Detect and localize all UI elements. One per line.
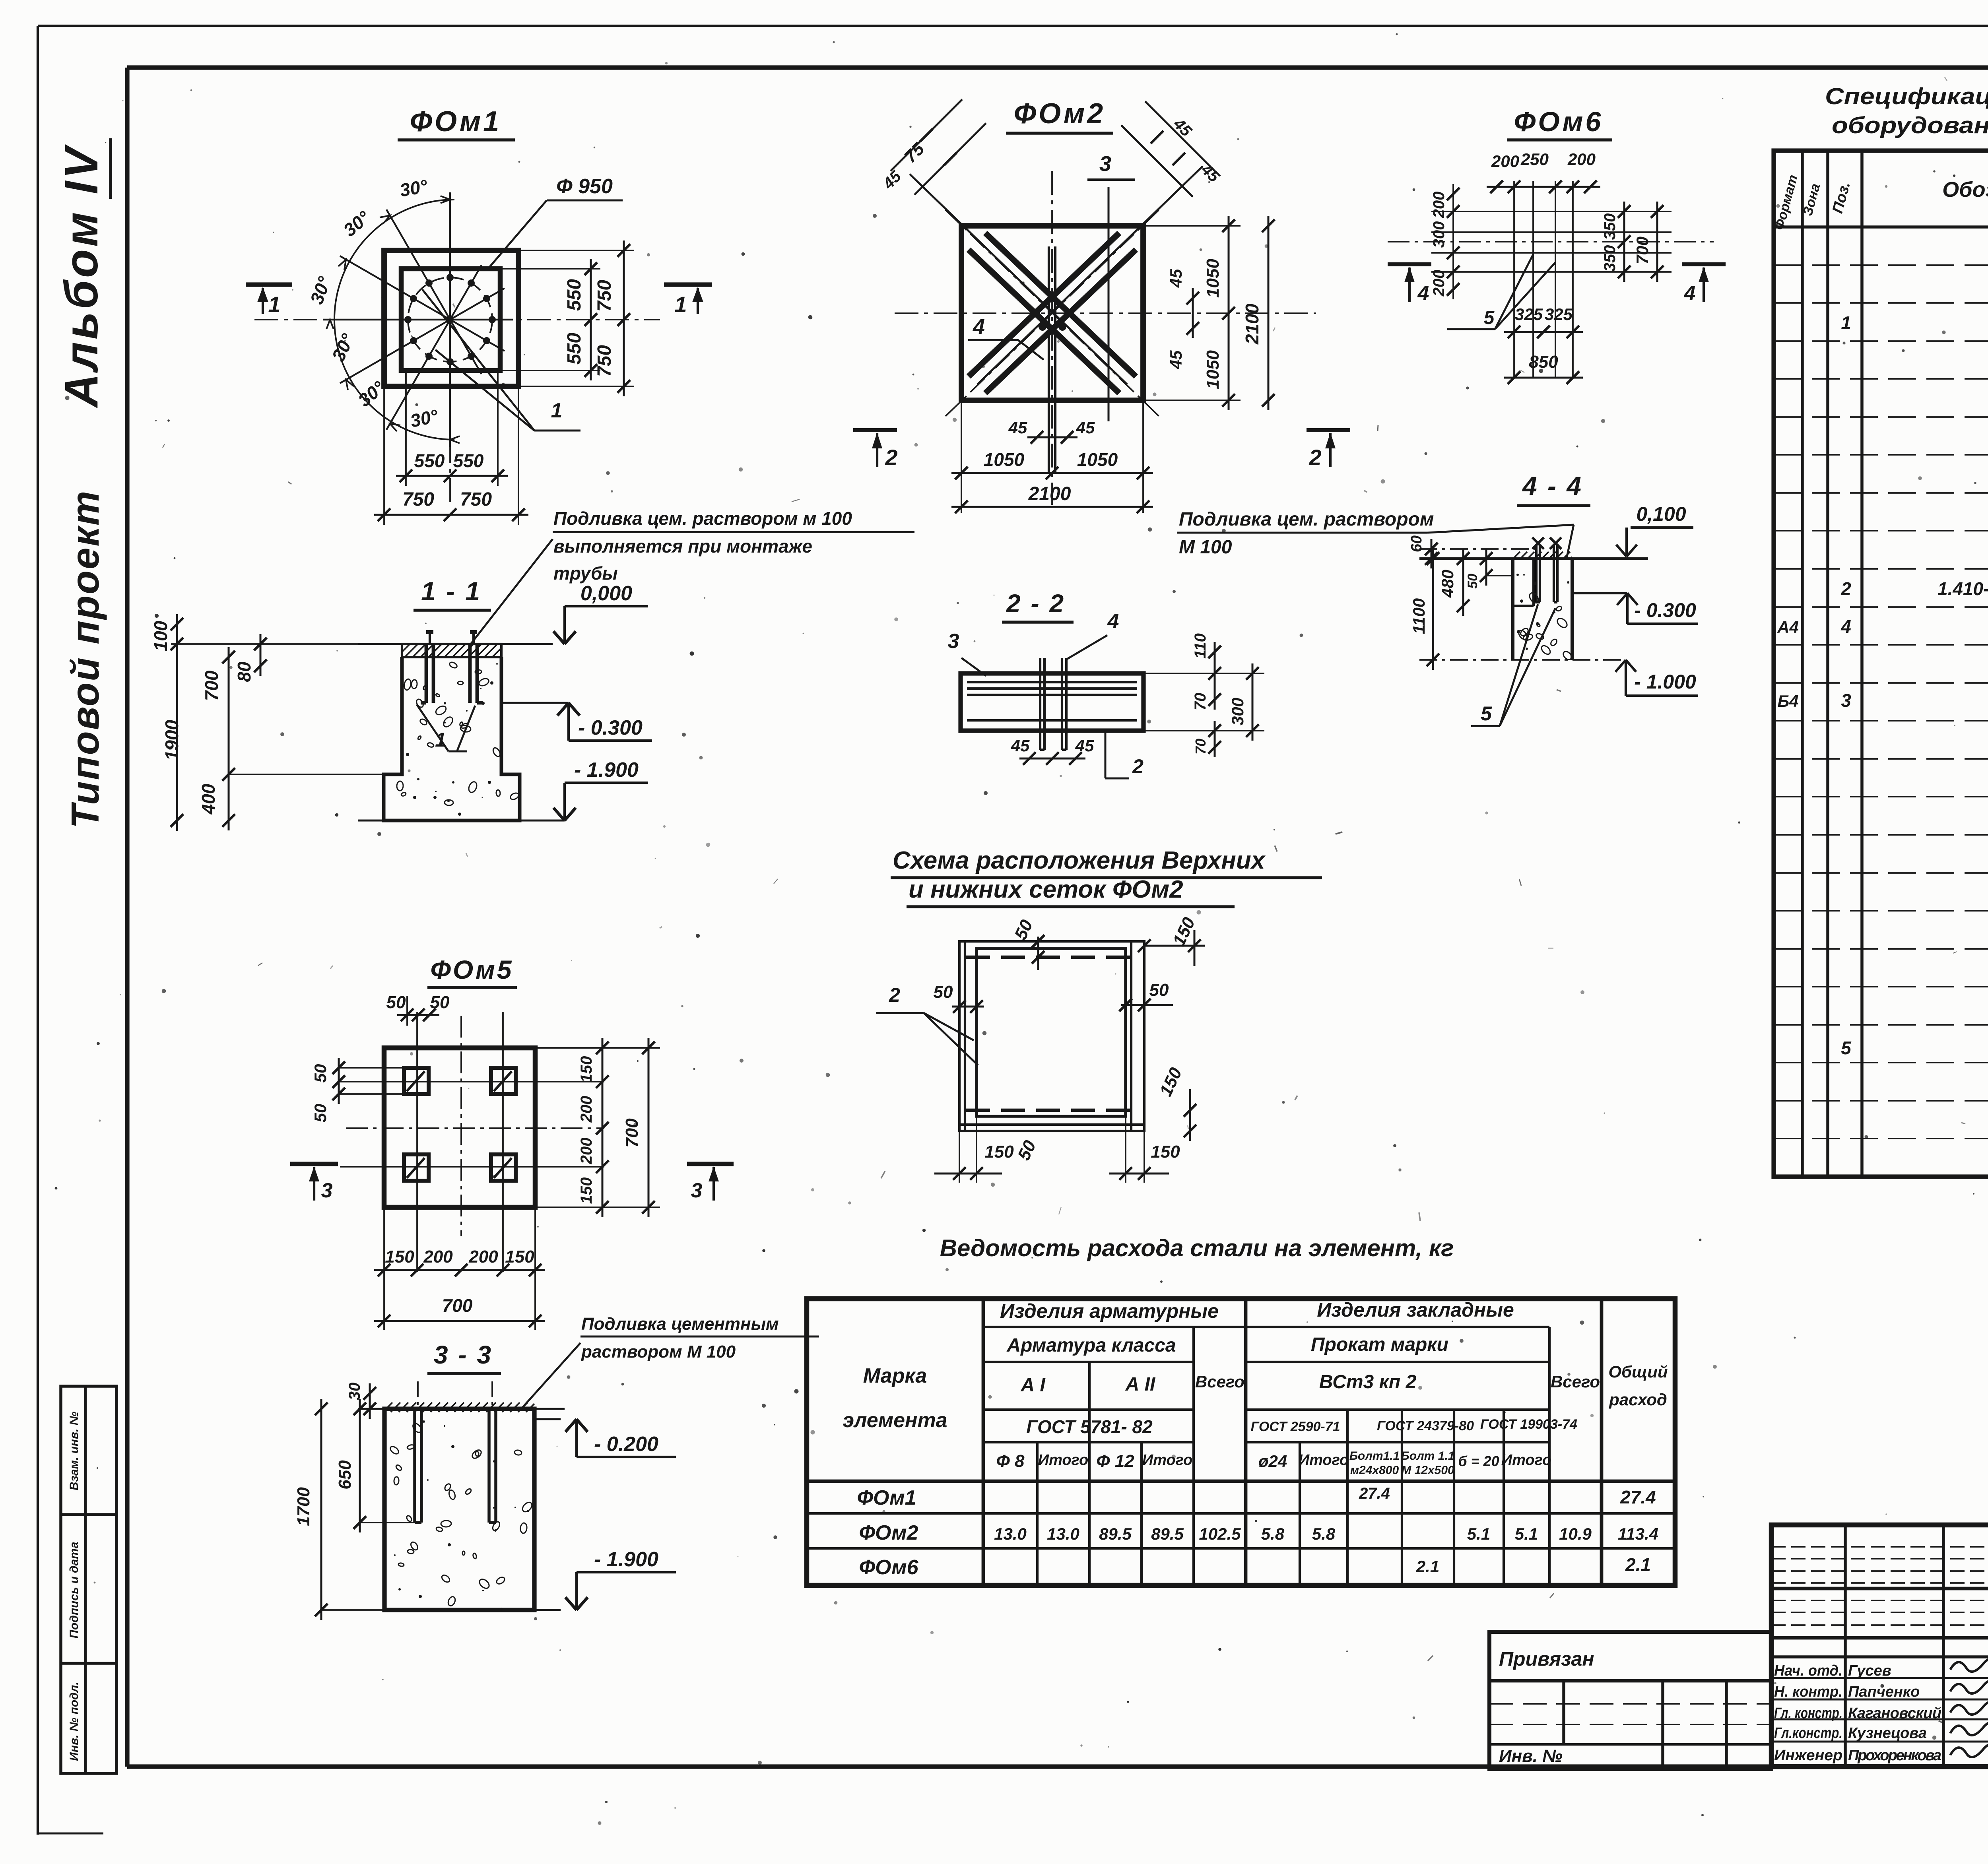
svg-text:50: 50: [386, 993, 406, 1012]
svg-text:5.8: 5.8: [1312, 1525, 1336, 1543]
ФОм1 right dim chain 550/550: [500, 259, 600, 380]
ФОм1 protractor arc: [334, 200, 454, 440]
svg-text:2: 2: [1840, 578, 1851, 599]
svg-text:Инженер: Инженер: [1774, 1747, 1842, 1764]
svg-text:ГОСТ 24379-80: ГОСТ 24379-80: [1377, 1418, 1474, 1433]
svg-text:и нижних сеток ФОм2: и нижних сеток ФОм2: [909, 876, 1183, 903]
svg-text:700: 700: [201, 670, 222, 701]
section 3-3 left dims 650/1700/30: [294, 1383, 415, 1620]
svg-text:0,000: 0,000: [580, 582, 632, 605]
ФОм2 bottom dims 45/45 1050/1050 2100: [951, 400, 1153, 513]
svg-text:650: 650: [335, 1460, 355, 1490]
svg-text:3: 3: [1841, 690, 1851, 711]
section 1-1 elevations: [501, 582, 652, 820]
svg-text:А4: А4: [1777, 618, 1799, 636]
svg-text:4: 4: [1417, 282, 1429, 305]
ФОм1 radial rays 30 deg: [323, 192, 513, 447]
svg-text:Взам. инв. №: Взам. инв. №: [68, 1412, 81, 1490]
svg-text:550: 550: [414, 450, 445, 471]
ведомость table grid: [807, 1299, 1675, 1585]
ведомость header texts: [843, 1299, 1668, 1477]
svg-text:ФОм1: ФОм1: [410, 106, 501, 138]
привязан box: [1489, 1632, 1771, 1769]
stamp signature rows: [1771, 1662, 1988, 1764]
svg-text:89.5: 89.5: [1151, 1525, 1184, 1543]
svg-text:1050: 1050: [1203, 350, 1223, 389]
svg-text:0,100: 0,100: [1636, 503, 1686, 525]
svg-text:200: 200: [423, 1247, 453, 1267]
section 3-3 body: [358, 1402, 565, 1610]
svg-text:5: 5: [1484, 307, 1495, 328]
svg-text:Нач. отд.: Нач. отд.: [1774, 1662, 1842, 1679]
svg-text:Н. контр.: Н. контр.: [1774, 1684, 1842, 1700]
svg-text:- 0.300: - 0.300: [578, 716, 643, 739]
svg-text:М 12х500: М 12х500: [1401, 1464, 1454, 1477]
section 3-3 anchor bolts: [415, 1381, 496, 1523]
svg-text:Общий: Общий: [1608, 1362, 1668, 1381]
svg-text:1050: 1050: [1077, 449, 1118, 470]
svg-text:1: 1: [674, 292, 687, 317]
ФОм2 outer square: [961, 226, 1143, 400]
section 4-4 elevation -1.000: [1615, 660, 1698, 696]
svg-text:100: 100: [150, 621, 171, 651]
section 2-2 slab: [961, 673, 1143, 731]
svg-text:ФОм2: ФОм2: [1014, 98, 1105, 130]
svg-text:б = 20: б = 20: [1458, 1453, 1499, 1469]
svg-text:4: 4: [1107, 610, 1119, 633]
foundation plan ФОм2 title: [1006, 98, 1113, 133]
ФОм5 anchor plates: [404, 1068, 516, 1181]
svg-text:300: 300: [1430, 221, 1448, 248]
ФОм2 diagonal bracing bars: [910, 166, 1203, 416]
svg-text:М 100: М 100: [1179, 537, 1232, 558]
section 2-2 title: [1002, 589, 1074, 622]
ФОм6 section marks 4: [1388, 264, 1726, 305]
section 4-4 column body: [1513, 552, 1573, 661]
svg-text:110: 110: [1192, 633, 1209, 659]
svg-text:- 1.900: - 1.900: [574, 758, 639, 782]
stamp signatures squiggles: [1950, 1658, 1988, 1757]
section 4-4 ground and bottom lines: [1419, 549, 1648, 660]
section 2-2 bottom dims 45/45: [1011, 731, 1143, 778]
svg-text:1: 1: [551, 399, 563, 422]
svg-text:2: 2: [1132, 755, 1143, 778]
ФОм2 top-right diagonal dims 45/45: [1121, 101, 1223, 197]
схема title 2 lines: [891, 847, 1322, 907]
ФОм1 bolt circle Ф950 dashed: [408, 277, 492, 362]
svg-text:200: 200: [1430, 192, 1448, 219]
svg-text:Ф 12: Ф 12: [1096, 1451, 1134, 1471]
ФОм6 top dim chain 200/250/200: [1487, 150, 1600, 193]
ФОм1 inner square (pedestal): [401, 269, 500, 370]
ФОм1 bottom dim chain 550/550: [396, 370, 508, 486]
svg-text:1050: 1050: [1203, 259, 1223, 298]
svg-text:3: 3: [321, 1179, 333, 1202]
svg-text:200: 200: [1567, 150, 1596, 169]
svg-text:5.1: 5.1: [1467, 1525, 1490, 1543]
svg-text:Прохоренкова: Прохоренкова: [1848, 1747, 1941, 1764]
схема mesh 2 dashed + side lines: [959, 941, 1144, 1131]
svg-text:13.0: 13.0: [1047, 1525, 1079, 1543]
svg-text:700: 700: [1633, 237, 1652, 264]
svg-text:ВСт3 кп 2: ВСт3 кп 2: [1319, 1371, 1417, 1393]
svg-text:элемента: элемента: [843, 1409, 947, 1432]
svg-text:150: 150: [385, 1247, 414, 1267]
svg-text:750: 750: [594, 280, 615, 312]
ФОм1 bolt leader label 1: [422, 289, 580, 431]
svg-text:Схема расположения Верхних: Схема расположения Верхних: [893, 847, 1266, 874]
svg-text:раствором М 100: раствором М 100: [581, 1342, 736, 1362]
svg-text:ГОСТ 2590-71: ГОСТ 2590-71: [1250, 1419, 1340, 1434]
схема dim right 150: [1156, 1065, 1196, 1141]
svg-text:1900: 1900: [161, 720, 182, 760]
ФОм6 vertical axis lines: [1514, 181, 1573, 378]
svg-text:50: 50: [430, 993, 450, 1012]
svg-text:2: 2: [885, 445, 897, 470]
svg-text:Ведомость расхода стали на эле: Ведомость расхода стали на элемент, кг: [940, 1235, 1454, 1261]
ФОм1 section mark 1 right: [664, 285, 712, 317]
svg-text:4 - 4: 4 - 4: [1522, 471, 1583, 500]
svg-text:Болт 1.1: Болт 1.1: [1401, 1449, 1455, 1463]
svg-text:750: 750: [460, 489, 492, 510]
svg-text:Подливка цем. раствором: Подливка цем. раствором: [1179, 509, 1434, 530]
svg-text:400: 400: [198, 784, 219, 815]
ФОм6 leader 5: [1447, 254, 1555, 329]
svg-text:200: 200: [468, 1247, 498, 1267]
svg-text:45: 45: [1167, 269, 1185, 288]
спецификация header texts: [1772, 168, 1988, 232]
section 1-1 left dims: [150, 614, 402, 831]
ФОм1 section mark 1 left: [246, 285, 292, 317]
svg-text:ФОм6: ФОм6: [1514, 106, 1604, 137]
section 2-2 bolts: [1040, 658, 1066, 750]
svg-text:Гл.констр.: Гл.констр.: [1774, 1725, 1842, 1742]
svg-text:300: 300: [1228, 698, 1247, 725]
svg-text:2.1: 2.1: [1416, 1557, 1439, 1576]
svg-text:150: 150: [984, 1142, 1014, 1162]
svg-text:150: 150: [578, 1056, 595, 1083]
svg-text:Инв. №: Инв. №: [1499, 1746, 1563, 1766]
ФОм2 section line 3 vertical: [1087, 152, 1135, 421]
svg-text:Подпись и дата: Подпись и дата: [68, 1542, 81, 1638]
section 4-4 title: [1517, 471, 1590, 506]
svg-text:250: 250: [1520, 150, 1549, 169]
svg-text:ФОм6: ФОм6: [859, 1556, 918, 1579]
svg-text:750: 750: [594, 345, 615, 377]
ФОм1 30deg labels: [306, 175, 440, 431]
svg-text:м24х800: м24х800: [1350, 1464, 1399, 1477]
svg-text:27.4: 27.4: [1620, 1487, 1656, 1507]
ФОм1 right dim chain 750/750: [518, 241, 634, 396]
section 4-4 bolts: [1532, 537, 1561, 602]
svg-text:Арматура класса: Арматура класса: [1006, 1335, 1176, 1356]
svg-text:60: 60: [1408, 535, 1425, 552]
stamp revision rows top-left: [1771, 1547, 1988, 1657]
ФОм1 centerlines: [254, 244, 660, 507]
ФОм6 bottom dims 325/325 850: [1504, 305, 1583, 384]
svg-text:89.5: 89.5: [1099, 1525, 1132, 1543]
схема outer square: [959, 941, 1144, 1131]
svg-text:480: 480: [1438, 570, 1457, 598]
svg-text:1 - 1: 1 - 1: [421, 576, 481, 606]
section 4-4 note Подливка цем раствором М100: [1177, 509, 1574, 559]
ФОм5 bottom dim chain 150/200/200/150 + 700: [374, 1207, 545, 1330]
ФОм2 section marks 2: [853, 430, 1350, 470]
схема bottom dims 150/50/150: [934, 1116, 1180, 1183]
svg-text:Всего: Всего: [1551, 1372, 1600, 1391]
svg-text:325: 325: [1545, 305, 1573, 324]
svg-text:27.4: 27.4: [1359, 1485, 1390, 1502]
svg-text:200: 200: [1491, 152, 1519, 171]
section 2-2 right dims 110/70/300/70: [1143, 633, 1264, 757]
svg-text:1100: 1100: [1409, 598, 1428, 634]
svg-text:4: 4: [1840, 616, 1851, 637]
section 2-2 labels 3 and 4: [948, 610, 1119, 676]
section 4-4 elevation -0.300: [1572, 593, 1698, 624]
svg-text:350: 350: [1601, 213, 1619, 240]
svg-text:Инв. № подл.: Инв. № подл.: [68, 1682, 81, 1761]
svg-text:45: 45: [1076, 418, 1095, 437]
svg-text:5: 5: [1481, 702, 1492, 725]
section 3-3 title: [427, 1340, 501, 1373]
svg-text:700: 700: [622, 1118, 642, 1148]
схема leader 2: [876, 984, 978, 1065]
margin stamp boxes (Инв № подл / Подпись и дата / Взам инв №): [61, 1386, 116, 1773]
ФОм2 centerlines: [895, 171, 1316, 505]
svg-text:150: 150: [505, 1247, 534, 1267]
svg-text:1: 1: [1841, 312, 1851, 333]
svg-text:- 0.200: - 0.200: [594, 1433, 658, 1456]
svg-text:150: 150: [578, 1177, 595, 1204]
svg-text:200: 200: [578, 1096, 595, 1123]
svg-text:Типовой проект: Типовой проект: [63, 490, 107, 828]
svg-text:850: 850: [1529, 352, 1558, 372]
svg-text:ФОм2: ФОм2: [859, 1521, 918, 1544]
svg-text:5: 5: [1841, 1038, 1852, 1058]
svg-text:2.1: 2.1: [1625, 1554, 1651, 1575]
svg-text:Ф 8: Ф 8: [996, 1451, 1025, 1471]
ФОм2 top-left diagonal dims 75/45: [879, 99, 986, 195]
section 3-3 elevations: [534, 1419, 676, 1610]
section 1-1 bolt leader 1: [417, 704, 475, 751]
stamp outer: [1771, 1525, 1988, 1767]
ФОм1 outer square: [384, 250, 518, 386]
svg-text:Изделия закладные: Изделия закладные: [1317, 1299, 1514, 1321]
svg-text:Прокат марки: Прокат марки: [1311, 1334, 1448, 1355]
svg-text:3: 3: [691, 1179, 703, 1202]
svg-text:1700: 1700: [294, 1487, 313, 1526]
stamp vertical dividers left part: [1845, 1525, 1988, 1767]
svg-text:700: 700: [442, 1295, 473, 1316]
svg-text:70: 70: [1192, 739, 1209, 755]
svg-text:ФОм5: ФОм5: [430, 955, 513, 984]
ФОм5 outer square: [384, 1048, 535, 1207]
ФОм6 centerline horizontal: [1388, 241, 1714, 242]
svg-text:Гусев: Гусев: [1848, 1662, 1891, 1679]
svg-text:550: 550: [564, 333, 585, 365]
схема dim right 50: [1119, 980, 1173, 1011]
svg-text:Ф 950: Ф 950: [556, 175, 613, 198]
svg-text:5.1: 5.1: [1515, 1525, 1538, 1543]
svg-text:50: 50: [1149, 980, 1169, 1000]
svg-text:Всего: Всего: [1195, 1372, 1244, 1391]
svg-text:102.5: 102.5: [1199, 1525, 1241, 1543]
section 1-1 anchor bolts: [421, 632, 483, 703]
svg-text:4: 4: [973, 315, 985, 339]
svg-text:- 1.000: - 1.000: [1634, 671, 1696, 693]
svg-text:Итого: Итого: [1299, 1452, 1349, 1468]
схема dim top-right 150: [1138, 914, 1205, 966]
svg-text:325: 325: [1515, 305, 1543, 324]
svg-text:5.8: 5.8: [1261, 1525, 1285, 1543]
section 4-4 left dims 60/480/1100/50: [1408, 535, 1513, 670]
svg-text:550: 550: [453, 450, 484, 471]
svg-text:1050: 1050: [984, 449, 1025, 470]
ФОм5 left dims 50/50: [311, 1058, 404, 1122]
svg-text:45: 45: [1167, 350, 1185, 369]
svg-text:Изделия арматурные: Изделия арматурные: [1000, 1300, 1219, 1322]
svg-text:Итого: Итого: [1038, 1452, 1088, 1468]
ведомость data rows: [857, 1485, 1658, 1579]
svg-text:50: 50: [311, 1064, 330, 1083]
svg-text:70: 70: [1192, 693, 1209, 711]
svg-text:10.9: 10.9: [1559, 1525, 1592, 1543]
ФОм2 leader 4: [968, 315, 1044, 360]
svg-text:750: 750: [402, 489, 434, 510]
svg-text:2100: 2100: [1242, 303, 1262, 345]
svg-text:2: 2: [1309, 445, 1321, 470]
svg-text:Марка: Марка: [863, 1364, 927, 1387]
svg-text:4: 4: [1684, 282, 1696, 305]
svg-text:113.4: 113.4: [1618, 1525, 1658, 1543]
foundation plan ФОм1 title: [398, 106, 515, 140]
svg-text:Альбом IV: Альбом IV: [55, 144, 108, 409]
спецификация grid: [1774, 151, 1988, 1177]
foundation plan ФОм6 title: [1507, 106, 1612, 140]
ФОм5 right dim chain 150/200/200/150: [535, 1038, 660, 1217]
svg-text:200: 200: [1430, 270, 1448, 297]
svg-text:30: 30: [346, 1383, 363, 1400]
svg-text:выполняется при монтаже: выполняется при монтаже: [553, 536, 812, 557]
ФОм6 horizontal axis lines: [1431, 211, 1672, 272]
section 4-4 elevation 0.100: [1616, 503, 1693, 557]
svg-text:Кузнецова: Кузнецова: [1848, 1725, 1927, 1742]
svg-text:- 1.900: - 1.900: [594, 1548, 658, 1571]
foundation plan ФОм5 title: [427, 955, 517, 987]
svg-text:3 - 3: 3 - 3: [434, 1340, 493, 1369]
схема dim top 50: [1011, 917, 1044, 970]
svg-text:2100: 2100: [1028, 483, 1071, 504]
svg-text:200: 200: [578, 1138, 595, 1165]
margin label Альбом IV: [55, 138, 111, 409]
section 1-1 note Подливка: [469, 508, 914, 646]
svg-text:оборудование ФОм1, ФОм2, ФОм5: оборудование ФОм1, ФОм2, ФОм5, ФОм6: [1832, 113, 1988, 138]
svg-text:2: 2: [889, 984, 900, 1006]
схема dim left 50: [934, 982, 984, 1013]
ФОм1 label Ф950 with leader: [489, 175, 623, 268]
ФОм5 top dims 50/50: [386, 993, 450, 1026]
svg-text:ГОСТ 5781- 82: ГОСТ 5781- 82: [1026, 1416, 1153, 1437]
svg-text:13.0: 13.0: [994, 1525, 1027, 1543]
svg-text:ФОм1: ФОм1: [857, 1486, 916, 1509]
спецификация title 2 lines: [1825, 83, 1988, 138]
svg-text:Итого: Итого: [1501, 1452, 1551, 1468]
svg-text:Привязан: Привязан: [1499, 1648, 1594, 1670]
ФОм5 section marks 3: [290, 1164, 734, 1202]
ФОм2 center bolts: [1039, 246, 1066, 473]
ФОм1 bolt dots on circle: [404, 274, 496, 365]
ФОм1 bottom dim chain 750/750: [374, 386, 528, 525]
svg-text:Спецификация к фундаментам: Спецификация к фундаментам под: [1825, 83, 1988, 109]
svg-text:45: 45: [1008, 418, 1027, 437]
ФОм2 right dims 45/45 1050/1050 2100: [1143, 216, 1275, 410]
svg-text:Б4: Б4: [1777, 692, 1798, 710]
svg-text:80: 80: [234, 661, 254, 682]
спецификация rows: [1777, 235, 1988, 1173]
svg-text:50: 50: [311, 1104, 330, 1123]
svg-text:45: 45: [1075, 736, 1094, 755]
svg-text:ГОСТ 19903-74: ГОСТ 19903-74: [1480, 1417, 1577, 1432]
ФОм6 left dim chain 200/300/200 rotated: [1430, 184, 1460, 299]
svg-text:расход: расход: [1609, 1390, 1667, 1409]
схема mesh 1 solid: [977, 949, 1126, 1116]
svg-text:350: 350: [1601, 245, 1619, 272]
svg-text:трубы: трубы: [553, 563, 618, 584]
margin label Типовой проект: [63, 490, 107, 828]
section 3-3 note Подливка цементным: [521, 1314, 819, 1409]
svg-text:А I: А I: [1020, 1375, 1046, 1396]
svg-text:Обозначение: Обозначение: [1942, 178, 1988, 202]
svg-text:- 0.300: - 0.300: [1634, 599, 1696, 621]
ФОм5 bolt axis lines: [340, 1012, 604, 1272]
svg-text:1: 1: [268, 292, 280, 317]
svg-text:А II: А II: [1125, 1374, 1156, 1395]
svg-text:3: 3: [1099, 152, 1111, 176]
svg-text:ø24: ø24: [1258, 1452, 1287, 1470]
svg-text:Подливка цементным: Подливка цементным: [581, 1314, 779, 1334]
svg-text:150: 150: [1151, 1142, 1180, 1162]
svg-text:Итого: Итого: [1142, 1452, 1192, 1468]
svg-text:1.410-2 В.1 л. 123: 1.410-2 В.1 л. 123: [1938, 578, 1988, 599]
svg-text:3: 3: [948, 630, 959, 653]
svg-text:550: 550: [564, 279, 585, 311]
svg-text:50: 50: [1465, 574, 1480, 589]
svg-text:50: 50: [934, 982, 953, 1002]
svg-text:Подливка цем. раствором м 100: Подливка цем. раствором м 100: [553, 508, 852, 529]
ФОм6 right dims 350/350 700: [1601, 202, 1664, 282]
svg-text:45: 45: [1011, 736, 1030, 755]
svg-text:2 - 2: 2 - 2: [1006, 589, 1065, 618]
svg-text:Болт1.1: Болт1.1: [1349, 1449, 1400, 1463]
section 4-4 leader 5: [1471, 604, 1555, 726]
section 1-1 foundation body: [358, 644, 553, 820]
ФОм5 centerlines: [346, 1016, 604, 1236]
section 1-1 title: [414, 576, 491, 610]
